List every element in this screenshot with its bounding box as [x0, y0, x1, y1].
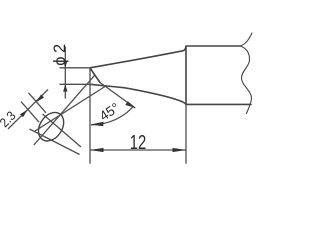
line Q2 through ellipse lower: [30, 129, 80, 155]
2.3 boundary line B1: [21, 102, 39, 123]
bevel face ellipse: [33, 108, 69, 146]
break (wavy) line: [241, 33, 253, 114]
2.3 dimension line R: [8, 90, 48, 130]
arrow 45arc bottom (pointing left, tip on vertical line): [91, 122, 104, 126]
2.3 boundary line B2: [29, 93, 47, 113]
arrow phi2 top (pointing down, tip at y=67.8): [63, 61, 67, 68]
cone top edge: [90, 47, 186, 68]
shaft bottom line: [186, 103, 251, 105]
svg-text:2.3: 2.3: [0, 108, 19, 130]
phi2 dimension line vertical: [64, 47, 66, 99]
12 dimension line: [90, 149, 186, 151]
12 text: [130, 131, 146, 154]
phi2 text (rotated): [51, 40, 69, 65]
12 dim left extension vertical: [89, 68, 91, 164]
extension line top (phi2 upper): [60, 67, 91, 69]
extension line bottom (phi2 lower): [60, 83, 94, 85]
svg-text:45°: 45°: [97, 100, 122, 124]
line Q through ellipse: [43, 114, 81, 147]
45 deg bevel extension line: [100, 83, 135, 109]
svg-text:12: 12: [130, 131, 146, 154]
shoulder vertical line: [185, 47, 187, 105]
shaft top line: [186, 45, 241, 47]
projection line P (to bevel bottom end): [35, 87, 105, 132]
arrow 2.3 lower (pointing up-right, tip at B1 crossing): [20, 110, 28, 118]
arrow 45arc top (pointing down-right along bevel ext): [125, 101, 135, 108]
arrow 2.3 upper (pointing down-left, tip at B2 crossing): [37, 95, 45, 103]
bevel edge at tip: [90, 68, 100, 83]
cone bottom edge: [90, 84, 186, 104]
45 deg arc: [91, 106, 134, 125]
12 dim right extension vertical: [185, 104, 187, 163]
2.3 text (rotated): [0, 108, 19, 130]
svg-text:ϕ2: ϕ2: [51, 40, 69, 65]
arrow 12 right (pointing right, tip at x=186): [173, 148, 187, 152]
arrow phi2 bottom (pointing up, tip at y=84.3): [63, 84, 67, 91]
arrow 12 left (pointing left, tip at x=90): [90, 148, 104, 152]
projection line M (ellipse center to bevel mid): [34, 75, 95, 145]
45 deg text (rotated): [97, 100, 122, 124]
